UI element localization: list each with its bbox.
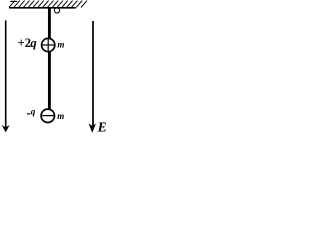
right arrow shaft: [92, 21, 94, 126]
pivot ring: [54, 8, 59, 13]
rod lower segment: [48, 51, 51, 109]
minus inside circle: [42, 115, 54, 117]
label -q: [27, 113, 30, 115]
left arrow shaft: [5, 20, 7, 127]
plus inside circle: [42, 44, 54, 46]
ceiling hatching: [9, 1, 87, 8]
charge -q circle: [41, 109, 54, 122]
left arrowhead: [2, 125, 10, 132]
svg-text:E: E: [97, 121, 106, 135]
svg-text:m: m: [57, 111, 64, 121]
svg-text:q: q: [30, 36, 36, 50]
svg-text:m: m: [57, 40, 64, 50]
rod upper segment: [48, 8, 51, 38]
ceiling top-left bar: [10, 0, 17, 2]
svg-text:q: q: [31, 107, 36, 117]
right arrowhead: [89, 124, 96, 133]
ceiling line: [9, 7, 76, 9]
charge +2q circle: [42, 38, 55, 51]
svg-text:+2: +2: [18, 36, 31, 50]
